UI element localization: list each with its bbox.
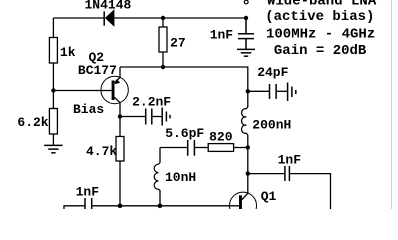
svg-text:1nF: 1nF — [210, 27, 234, 42]
svg-text:2.2nF: 2.2nF — [132, 95, 171, 110]
svg-text:BC177: BC177 — [78, 63, 117, 78]
svg-text:1nF: 1nF — [76, 185, 100, 200]
svg-text:100MHz - 4GHz: 100MHz - 4GHz — [266, 26, 375, 42]
svg-text:Gain = 20dB: Gain = 20dB — [274, 43, 367, 59]
svg-text:(active bias): (active bias) — [265, 9, 374, 25]
svg-text:1k: 1k — [60, 45, 76, 60]
svg-text:1N4148: 1N4148 — [85, 0, 132, 13]
svg-text:200nH: 200nH — [252, 117, 291, 132]
svg-text:5.6pF: 5.6pF — [165, 126, 204, 141]
svg-text:Bias: Bias — [73, 102, 104, 117]
svg-text:4.7k: 4.7k — [86, 144, 117, 159]
svg-text:6.2k: 6.2k — [17, 115, 48, 130]
svg-text:1nF: 1nF — [278, 153, 302, 168]
svg-text:Q1: Q1 — [261, 189, 277, 204]
svg-text:27: 27 — [170, 36, 186, 51]
svg-text:10nH: 10nH — [165, 170, 196, 185]
svg-text:820: 820 — [209, 129, 233, 144]
svg-text:24pF: 24pF — [257, 65, 288, 80]
